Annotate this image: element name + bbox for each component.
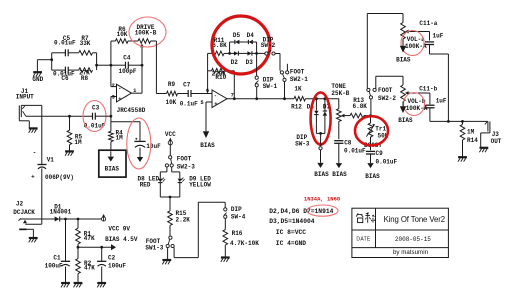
jack J1 (input): [19, 105, 42, 120]
diode D6: [314, 99, 318, 134]
power symbol VCC (LED): [168, 138, 172, 145]
wire: D6/D7 join: [316, 132, 325, 134]
pin 1: [133, 87, 137, 94]
resistor R14: [460, 121, 465, 156]
wire: R10 to output: [233, 71, 235, 99]
svg-text:King Of Tone Ver2: King Of Tone Ver2: [384, 215, 445, 224]
wire: SW-2 drop: [279, 54, 281, 71]
label BIAS 4.5V: [105, 236, 138, 243]
svg-text:FOOT: FOOT: [177, 155, 192, 162]
svg-text:47K: 47K: [84, 235, 95, 242]
label C7: [180, 82, 198, 108]
red ellipse around 10uF: [127, 118, 151, 169]
wire: feedback riser: [207, 53, 209, 93]
potentiometer VOL-b 100K-A: [401, 85, 430, 102]
ground (J3): [479, 148, 488, 152]
label D5: [233, 32, 241, 39]
wire: D3 to node: [252, 52, 257, 54]
svg-text:10K: 10K: [165, 99, 176, 106]
svg-text:SW-2: SW-2: [261, 42, 276, 49]
wire: filter to op-amp node: [97, 64, 111, 66]
wire: battery to DC jack: [41, 168, 43, 224]
arrow BIAS (C9): [367, 163, 373, 168]
svg-text:DCJACK: DCJACK: [13, 209, 35, 216]
node: R13/Tr1: [369, 114, 372, 117]
svg-text:OUT: OUT: [491, 138, 502, 145]
resistor R15: [168, 197, 173, 236]
svg-text:FOOT: FOOT: [290, 69, 305, 76]
node: SW2-1/output: [283, 97, 286, 100]
title date 2008-05-15: [395, 236, 431, 243]
LED D8 (red): [158, 178, 165, 183]
svg-text:Tr1: Tr1: [375, 125, 386, 132]
ground (SW1-3): [162, 260, 171, 264]
ground (C1): [61, 283, 70, 287]
node: filter/gnd junction: [50, 58, 53, 61]
node: SW-1/output: [255, 97, 258, 100]
svg-text:SW-4: SW-4: [231, 214, 246, 221]
capacitor C3: [93, 113, 96, 120]
wire: bias row: [78, 246, 111, 248]
svg-text:JRC4558D: JRC4558D: [117, 107, 146, 114]
jack J2 (DC): [19, 218, 42, 224]
svg-text:by matsumin: by matsumin: [393, 249, 429, 256]
svg-text:1M: 1M: [467, 128, 475, 135]
capacitor C5: [65, 49, 68, 56]
svg-text:100K-B: 100K-B: [135, 30, 157, 37]
svg-text:FOOT: FOOT: [378, 87, 393, 94]
wire: D2 to D3: [238, 52, 247, 54]
potentiometer VOL-a 100K-A: [401, 23, 430, 40]
svg-text:INPUT: INPUT: [16, 94, 34, 101]
wire: select top run: [367, 14, 403, 23]
svg-text:0.01uF: 0.01uF: [376, 159, 398, 166]
label BIAS (C8): [332, 171, 347, 178]
wire: to GND: [37, 60, 51, 72]
wire: J1 barrel to battery: [41, 105, 43, 164]
label V1: [31, 150, 74, 181]
svg-text:D4: D4: [247, 32, 255, 39]
red ellipse around VOL-a: [401, 31, 424, 56]
switch DIP SW-4: [224, 208, 227, 230]
ground (R14): [458, 157, 467, 161]
node: R10/output: [233, 97, 236, 100]
svg-text:33K: 33K: [80, 40, 91, 47]
node: D6 top: [315, 97, 318, 100]
diode D4: [248, 40, 253, 44]
svg-text:R16: R16: [232, 230, 243, 237]
wire: R12 to TONE: [306, 98, 339, 100]
label R6: [117, 26, 128, 38]
svg-text:1N4001: 1N4001: [50, 209, 72, 216]
svg-text:D3,D5=1N4004: D3,D5=1N4004: [269, 218, 315, 225]
label DIP SW-3: [295, 134, 310, 147]
resistor R8: [79, 68, 93, 73]
pin 7: [231, 92, 234, 99]
wire: to D9: [172, 167, 180, 178]
svg-text:-: -: [33, 150, 37, 157]
svg-text:D5: D5: [233, 32, 241, 39]
wire: top diode row lead: [230, 41, 235, 43]
wire: D9 to join: [179, 183, 181, 197]
ground GND: [33, 72, 42, 76]
capacitor 10uF: [134, 138, 145, 148]
node: bus/R14: [461, 120, 464, 123]
label J3: [491, 131, 502, 145]
pin 3: [112, 93, 116, 100]
wire: TONE bottom to C8: [338, 122, 340, 140]
node: C2 tap: [100, 246, 103, 249]
svg-text:0.01uF: 0.01uF: [84, 123, 106, 130]
label GND: [32, 76, 43, 83]
svg-text:1M: 1M: [116, 135, 124, 142]
wire: power rail: [20, 218, 55, 220]
resistor R16: [223, 230, 228, 257]
wire: J1 sleeve to ground: [19, 121, 29, 128]
svg-text:2008-05-15: 2008-05-15: [395, 236, 431, 243]
wire: node down to pin 2: [111, 65, 117, 86]
label C2: [108, 254, 126, 269]
resistor R1: [76, 219, 81, 247]
diode D3: [247, 51, 252, 55]
red circle around Tr1: [355, 116, 388, 145]
svg-text:2: 2: [112, 82, 115, 89]
svg-text:100uF: 100uF: [45, 263, 63, 270]
wire: to D8: [160, 167, 167, 178]
wire: VOL-a bottom: [402, 39, 404, 46]
potentiometer TONE 25K-B: [337, 99, 351, 122]
arrow BIAS (VOL-a): [400, 46, 406, 53]
label C11-a: [419, 20, 443, 40]
jack J3 (output): [481, 121, 490, 147]
svg-text:BIAS: BIAS: [105, 166, 120, 173]
svg-text:25K-B: 25K-B: [331, 90, 349, 97]
pin 5: [200, 99, 204, 106]
wire: top branch left: [52, 52, 66, 54]
node: D7 top: [324, 97, 327, 100]
wire: LED join: [160, 196, 180, 198]
label VOL-a: [405, 36, 427, 50]
wire: output pin 1: [131, 92, 142, 94]
resistor R6: [111, 39, 128, 44]
switch DIP SW-2: [257, 50, 280, 55]
wire: VOL-b bottom: [402, 102, 404, 107]
label D6: [307, 103, 315, 110]
svg-text:YELLOW: YELLOW: [189, 182, 211, 189]
wire: SW1-3 to DIP SW-4: [174, 202, 225, 257]
svg-text:1K: 1K: [294, 85, 302, 92]
op-amp U1b: [212, 90, 227, 108]
label FOOT SW1-3: [145, 238, 163, 251]
svg-text:47K: 47K: [84, 265, 95, 272]
red circle around diodes: [212, 16, 270, 74]
resistor R13: [350, 113, 371, 118]
svg-text:SW2-3: SW2-3: [177, 163, 195, 170]
svg-text:BIAS: BIAS: [398, 117, 413, 124]
label FOOT SW2-2: [378, 87, 396, 102]
svg-text:GND: GND: [32, 76, 43, 83]
label R12: [291, 85, 302, 110]
wire: wiper to output: [141, 65, 143, 93]
wire: R9 to C7: [178, 93, 189, 95]
wire: C5 to R7: [68, 52, 79, 54]
svg-text:SW-3: SW-3: [295, 141, 310, 148]
label R2: [84, 260, 95, 272]
svg-text:4.7K-10K: 4.7K-10K: [230, 240, 259, 247]
red ellipse around VOL-b: [404, 93, 425, 116]
svg-text:R14: R14: [467, 137, 478, 144]
switch DIP SW-1: [255, 53, 258, 98]
op-amp U1a JRC4558D: [117, 84, 132, 102]
title text King Of Tone Ver2: [384, 215, 445, 224]
battery V1: [38, 165, 47, 169]
svg-text:BIAS: BIAS: [332, 171, 347, 178]
svg-text:D2: D2: [231, 59, 239, 66]
svg-text:1N34A, 1N60: 1N34A, 1N60: [304, 195, 340, 202]
svg-text:10K: 10K: [117, 31, 128, 38]
label R13: [353, 97, 368, 110]
label C3: [84, 105, 106, 130]
wire: C6 to R8: [68, 69, 79, 71]
capacitor C11-b: [425, 93, 434, 121]
ground (J2): [29, 238, 38, 242]
label R9: [165, 81, 176, 106]
svg-text:BIAS: BIAS: [396, 56, 411, 63]
wire: pin 5 bias: [206, 102, 212, 131]
arrow BIAS (D6/D7): [317, 163, 323, 168]
capacitor C4: [111, 62, 142, 69]
svg-text:SW2-1: SW2-1: [290, 76, 308, 83]
svg-text:IC 4=GND: IC 4=GND: [276, 240, 306, 247]
svg-text:C3: C3: [92, 105, 100, 112]
wire: filter left vertical: [51, 53, 53, 70]
svg-text:006P(9V): 006P(9V): [45, 174, 74, 181]
node: diode right: [255, 52, 258, 55]
jack J2 sleeve: [19, 229, 33, 238]
svg-text:6: 6: [206, 87, 209, 94]
switch FOOT SW2-3: [165, 145, 173, 167]
ground (R2): [74, 283, 83, 287]
ground (J1): [29, 128, 38, 132]
label Tr1: [364, 125, 389, 149]
capacitor C6: [65, 67, 68, 74]
label 10uF: [146, 143, 161, 150]
note IC 8=VCC: [276, 229, 306, 236]
wire: D5 to D4: [239, 41, 248, 43]
svg-text:+: +: [31, 173, 35, 180]
label R4: [116, 129, 124, 141]
svg-text:6.8K: 6.8K: [212, 42, 227, 49]
wire: D8 to join: [159, 183, 161, 197]
label D1: [50, 204, 72, 216]
node: D6/D7 bottom: [319, 132, 322, 135]
svg-text:C11-b: C11-b: [419, 86, 437, 93]
label DIP SW-4: [231, 206, 246, 220]
red ellipse around =1N914: [307, 205, 338, 216]
wire: channel-a to bus: [430, 54, 449, 121]
svg-text:7: 7: [231, 92, 234, 99]
title block label 名称: [356, 213, 374, 223]
resistor R5: [67, 116, 72, 151]
label VCC (LED): [165, 131, 176, 138]
wire: SW1-3 to ground: [167, 248, 169, 260]
label D3: [246, 59, 254, 66]
svg-text:J2: J2: [16, 201, 24, 208]
svg-text:DIP: DIP: [231, 206, 242, 213]
pin 6: [206, 87, 209, 94]
label R1: [84, 230, 95, 242]
svg-text:D2,D4,D6 D7=1N914: D2,D4,D6 D7=1N914: [269, 208, 333, 215]
capacitor C9: [366, 151, 375, 154]
label C9: [376, 150, 398, 166]
diode D2: [234, 51, 239, 55]
label J1: [16, 88, 34, 101]
trimmer Tr1 50K BOOST: [366, 116, 375, 151]
label R5: [74, 134, 82, 147]
svg-text:C7: C7: [183, 82, 191, 89]
label BIAS (C9): [365, 173, 380, 180]
label D8: [138, 176, 160, 189]
capacitor C2: [97, 247, 106, 282]
wire: C9 to bias: [370, 154, 372, 163]
svg-text:0.1uF: 0.1uF: [180, 100, 198, 107]
title block frame: [352, 208, 449, 257]
svg-text:RED: RED: [140, 182, 151, 189]
arrow BIAS out: [111, 244, 116, 250]
svg-text:DATE: DATE: [356, 237, 371, 243]
node: diode left: [228, 52, 231, 55]
label R7: [80, 35, 91, 47]
node: filter output: [95, 64, 98, 67]
label BIAS (D6/D7): [314, 171, 329, 178]
svg-text:1uF: 1uF: [436, 98, 447, 105]
svg-text:VCC 9V: VCC 9V: [108, 226, 130, 233]
wire: U1b output row: [227, 98, 294, 100]
svg-text:SW1-3: SW1-3: [145, 244, 163, 251]
label TONE: [331, 83, 349, 97]
label R16: [230, 230, 259, 247]
resistor R11: [208, 51, 230, 56]
label D2: [231, 59, 239, 66]
label FOOT SW2-3: [177, 155, 195, 170]
diode D7: [323, 99, 327, 134]
node: C4 left: [110, 64, 113, 67]
note diodes 1N914: [269, 208, 333, 215]
wire: to R9: [156, 93, 166, 95]
resistor R4: [109, 116, 114, 150]
svg-text:C2: C2: [108, 254, 116, 261]
capacitor C7: [188, 90, 191, 97]
svg-text:R9: R9: [168, 81, 176, 88]
wire: C3 to op-amp node: [95, 115, 111, 117]
label BIAS (pin5): [200, 142, 215, 149]
svg-text:-: -: [214, 92, 217, 99]
svg-text:SW2-2: SW2-2: [378, 95, 396, 102]
title block DATE: [356, 237, 371, 243]
svg-text:1uF: 1uF: [433, 33, 444, 40]
switch FOOT SW2-2: [367, 76, 376, 115]
label BIAS (VOL-b): [398, 117, 413, 124]
wire: filter right vertical: [96, 53, 98, 70]
svg-text:BIAS: BIAS: [365, 173, 380, 180]
label FOOT SW2-1: [290, 69, 308, 84]
node: LED join: [169, 196, 172, 199]
wire: SW2-2 to VOL-b: [376, 76, 403, 85]
svg-text:100pF: 100pF: [118, 68, 136, 75]
label C11-b: [419, 86, 447, 105]
label R8: [79, 70, 90, 82]
svg-text:C4: C4: [123, 55, 131, 62]
ground (C2): [97, 283, 106, 287]
svg-text:C8: C8: [344, 140, 352, 147]
svg-text:IC 8=VCC: IC 8=VCC: [276, 229, 306, 236]
wire: bottom branch left: [52, 69, 66, 71]
BIAS box: [99, 150, 126, 177]
power symbol VCC: [102, 214, 106, 221]
label D4: [247, 32, 255, 39]
svg-text:C9: C9: [376, 150, 384, 157]
svg-text:R10: R10: [215, 74, 226, 81]
capacitor C11-a: [425, 32, 434, 55]
diode D5: [235, 40, 240, 44]
resistor R12: [294, 96, 306, 101]
label BIAS (VOL-a): [396, 56, 411, 63]
wire: diode left riser: [229, 42, 231, 53]
svg-text:VCC: VCC: [165, 131, 176, 138]
label C6: [53, 70, 75, 77]
label DIP SW-1: [263, 77, 278, 90]
node: BIAS divider: [77, 246, 80, 249]
svg-text:0.01uF: 0.01uF: [344, 147, 366, 154]
wire: bottom diode row lead: [230, 52, 234, 54]
wire: output bus: [430, 120, 488, 122]
label C5: [54, 35, 76, 47]
resistor R2: [76, 247, 81, 282]
red ellipse around C3: [83, 101, 106, 132]
wire: D1 to VCC: [60, 218, 102, 220]
LED D9 (yellow): [178, 178, 185, 183]
note diodes 1N4004: [269, 218, 315, 225]
ground (R5): [65, 151, 74, 155]
wire: select riser: [366, 14, 368, 89]
label C4: [118, 55, 136, 75]
potentiometer DRIVE 100K-B: [128, 39, 156, 65]
resistor R7: [79, 51, 93, 56]
svg-text:1M: 1M: [74, 139, 82, 146]
svg-text:J3: J3: [492, 131, 500, 138]
label J2: [13, 201, 35, 217]
red ellipse around D6 D7: [311, 93, 331, 145]
title by matsumin: [393, 249, 429, 256]
node: R1 tap: [77, 218, 80, 221]
note IC 4=GND: [276, 240, 306, 247]
wire: node up to R6 row: [110, 41, 112, 65]
red ellipse around DRIVE: [129, 17, 166, 47]
label D7: [323, 103, 331, 110]
svg-text:BIAS: BIAS: [200, 142, 215, 149]
svg-text:100uF: 100uF: [108, 263, 126, 270]
switch FOOT SW1-3: [166, 236, 174, 248]
label C1: [45, 254, 63, 269]
svg-text:SW-1: SW-1: [263, 83, 278, 90]
node: input junction: [68, 115, 71, 118]
svg-text:-: -: [118, 85, 121, 92]
switch FOOT SW2-1: [280, 64, 289, 99]
label C8: [344, 140, 366, 155]
label VCC 9V: [108, 226, 130, 233]
diode D1: [55, 217, 60, 222]
arrow BIAS (10uF): [137, 148, 143, 162]
